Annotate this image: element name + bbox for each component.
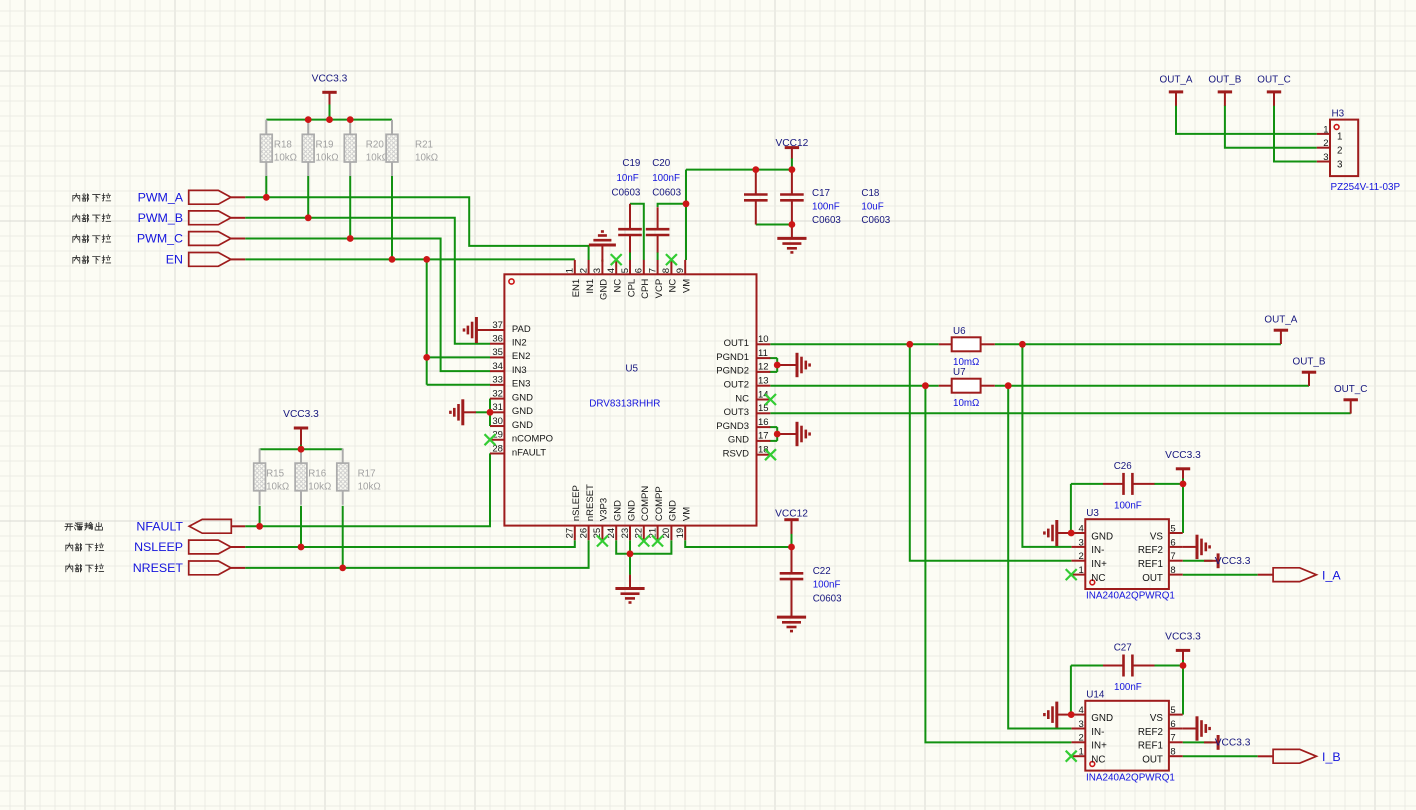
U5 pin 21 COMPP (bottom) [647, 486, 665, 540]
svg-text:C22: C22 [813, 566, 831, 577]
svg-text:10uF: 10uF [861, 201, 883, 212]
wire VCC12 stem top [791, 158, 793, 170]
no-connect X U5 pin29 nCOMPO [485, 434, 496, 445]
U5 pin 26 nRESET (bottom) [578, 484, 596, 540]
ground at U14 REF2 [1197, 716, 1210, 740]
U5 pin 19 VM (bottom) [675, 507, 693, 540]
wire C17 bottom to C18 [756, 224, 792, 226]
svg-text:nSLEEP: nSLEEP [571, 485, 582, 521]
wire VCC3.3 rail to R18-R21 [266, 119, 392, 121]
svg-text:CPH: CPH [640, 279, 651, 299]
svg-text:C0603: C0603 [861, 215, 890, 226]
svg-text:U6: U6 [953, 326, 966, 337]
junction PGND bracket2 [774, 431, 781, 438]
svg-text:GND: GND [512, 392, 533, 403]
wire VM vertical [685, 170, 687, 260]
ground stem U14 GND [1057, 714, 1071, 716]
U3 pin 6 REF2 [1138, 537, 1183, 556]
U3 pin 2 IN+ [1072, 551, 1108, 570]
junction OUT1/U6 left [906, 341, 913, 348]
svg-text:NC: NC [613, 279, 624, 293]
power flag VCC3.3 U3 stem [1182, 469, 1184, 479]
ground under C18 [777, 238, 806, 252]
svg-text:19: 19 [675, 528, 686, 539]
svg-text:NC: NC [735, 393, 749, 404]
svg-text:R15: R15 [266, 468, 285, 479]
ground under C22 [777, 617, 806, 631]
svg-text:2: 2 [1323, 138, 1328, 149]
svg-text:IN2: IN2 [512, 338, 527, 349]
junction VM/VCC12 lower [788, 544, 795, 551]
svg-text:2: 2 [1079, 733, 1084, 744]
power flag VCC12 bottom [784, 518, 798, 521]
junction OUT2/U7 left [922, 382, 929, 389]
svg-text:OUT_A: OUT_A [1160, 74, 1193, 85]
U5 pin 2 IN1 (top) [578, 260, 596, 294]
power flag VCC3.3 lower [294, 427, 308, 430]
U5 pin 15 OUT3 (right) [724, 403, 771, 418]
U5 pin 3 GND (top) [592, 260, 610, 300]
junction PWM_A/R18 [263, 194, 270, 201]
svg-text:100nF: 100nF [1114, 500, 1142, 511]
svg-text:IN+: IN+ [1091, 559, 1107, 570]
svg-text:4: 4 [606, 268, 617, 273]
svg-text:R21: R21 [415, 140, 433, 151]
svg-text:11: 11 [758, 348, 768, 359]
power flag VCC12 bottom stem [791, 520, 793, 534]
ground stem GND bracket [463, 411, 476, 413]
svg-text:3: 3 [1079, 537, 1084, 548]
capacitor C26 plates [1124, 473, 1133, 495]
wire EN to EN2 [427, 356, 490, 358]
U14 pin 3 IN- [1072, 719, 1105, 738]
svg-text:C0603: C0603 [812, 215, 841, 226]
svg-text:OUT_C: OUT_C [1334, 384, 1367, 395]
U5 pin 34 IN3 (left) [490, 361, 527, 376]
port I_B [1273, 749, 1316, 763]
U3 pin1 indicator [1090, 580, 1095, 585]
U5 pin 18 RSVD (right) [723, 445, 771, 460]
capacitor C27 leads [1103, 665, 1124, 667]
U3 pin 8 OUT [1142, 565, 1182, 584]
ground at PGND3/GND17 [797, 422, 810, 446]
wire C20 top to VM node [658, 204, 686, 207]
ground at U5 PAD [464, 317, 476, 343]
capacitor C19 top bend [629, 204, 631, 207]
wire C27 right [1154, 665, 1183, 667]
U14 pin 1 NC [1072, 747, 1106, 766]
resistor R15 10kΩ [259, 449, 261, 464]
port NFAULT [189, 519, 231, 533]
svg-text:IN+: IN+ [1091, 741, 1107, 752]
wire R15 to NFAULT [259, 506, 261, 527]
svg-text:R16: R16 [308, 468, 327, 479]
wire NSLEEP to nSLEEP pin [245, 540, 575, 547]
svg-text:U3: U3 [1086, 508, 1099, 519]
svg-text:10kΩ: 10kΩ [316, 153, 339, 164]
svg-text:IN1: IN1 [585, 279, 596, 294]
wire GND bracket vertical [489, 399, 491, 426]
svg-text:1: 1 [1323, 124, 1328, 135]
no-connect X U5 pin21 COMPP [652, 536, 663, 547]
net flag OUT_C [1334, 384, 1367, 414]
port PWM_B [189, 211, 231, 225]
no-connect X U5 pin18 RSVD [765, 449, 776, 460]
svg-text:C19: C19 [622, 158, 640, 169]
IC U5 DRV8313RHHR body [504, 274, 756, 525]
svg-text:1: 1 [1079, 747, 1084, 758]
svg-text:INA240A2QPWRQ1: INA240A2QPWRQ1 [1086, 591, 1175, 602]
svg-text:C0603: C0603 [813, 593, 842, 604]
svg-text:I_B: I_B [1322, 750, 1341, 764]
wire U6 to OUT_A flag [995, 343, 1281, 345]
annotation text 内部下拉 EN [73, 255, 111, 263]
svg-text:VCP: VCP [654, 279, 665, 299]
U5 pin 17 GND (right) [728, 431, 770, 446]
capacitor C22 leads [791, 547, 793, 573]
no-connect X U5 pin25 V3P3 [597, 536, 608, 547]
svg-text:32: 32 [492, 388, 503, 399]
wire OUT_A to H3 pin1 [1176, 105, 1317, 133]
svg-text:R20: R20 [366, 140, 385, 151]
net flag OUT_A [1264, 314, 1297, 344]
svg-text:VM: VM [682, 507, 693, 521]
svg-text:GND: GND [512, 406, 533, 417]
wire C26 right [1154, 483, 1183, 485]
no-connect X U5 pin14 NC [765, 394, 776, 405]
junction NRESET/R17 [339, 565, 346, 572]
ground stem PGND1/2 [777, 364, 797, 366]
wire U14 OUT to I_B [1183, 755, 1258, 757]
wire VCC3.3 to VS U14 [1182, 660, 1184, 715]
svg-text:C18: C18 [861, 188, 880, 199]
U14 pin 5 VS [1150, 705, 1183, 724]
svg-text:C0603: C0603 [652, 187, 681, 198]
resistor R20 10kΩ [349, 120, 351, 135]
svg-text:EN2: EN2 [512, 351, 530, 362]
svg-text:PZ254V-11-03P: PZ254V-11-03P [1331, 182, 1401, 193]
svg-text:26: 26 [578, 528, 589, 539]
annotation text 内部下拉 NSLEEP [66, 543, 104, 551]
svg-text:GND: GND [668, 500, 679, 521]
svg-text:GND: GND [613, 500, 624, 521]
junction NSLEEP/R16 [298, 544, 305, 551]
capacitor C22 plates [780, 573, 804, 579]
svg-text:U5: U5 [625, 364, 638, 375]
ground stem U3 REF2 [1183, 546, 1197, 548]
U3 pin 4 GND [1072, 523, 1114, 542]
wire R21 to EN [391, 176, 393, 260]
ground stem U14 REF2 [1183, 728, 1197, 730]
U5 pin 29 nCOMPO (left) [490, 430, 553, 445]
svg-text:IN3: IN3 [512, 365, 527, 376]
U5 pin 4 NC (top) [606, 260, 624, 293]
svg-text:VM: VM [682, 279, 693, 293]
svg-text:9: 9 [675, 268, 686, 273]
svg-text:5: 5 [620, 268, 631, 273]
wire GND17 stub ext [769, 440, 777, 442]
wire C26 to GND pin4 [1070, 484, 1072, 533]
svg-text:DRV8313RHHR: DRV8313RHHR [589, 399, 660, 410]
svg-text:7: 7 [1170, 733, 1175, 744]
svg-text:8: 8 [661, 268, 672, 273]
capacitor C18 leads [791, 170, 793, 195]
junction R20/VCC rail [347, 116, 354, 123]
svg-text:8: 8 [1170, 747, 1175, 758]
svg-text:OUT: OUT [1142, 755, 1163, 766]
svg-text:IN-: IN- [1091, 545, 1104, 556]
svg-text:PGND1: PGND1 [716, 352, 749, 363]
U5 pin 10 OUT1 (right) [724, 334, 771, 349]
ground stem PAD [476, 329, 490, 331]
svg-text:V3P3: V3P3 [599, 498, 610, 521]
svg-text:3: 3 [1337, 159, 1343, 170]
H3 pin 3 [1317, 152, 1343, 170]
svg-text:EN1: EN1 [571, 279, 582, 297]
U5 pin 24 GND (bottom) [606, 500, 624, 540]
junction U14 GND/C27 [1068, 711, 1075, 718]
svg-text:REF2: REF2 [1138, 727, 1163, 738]
U5 pin 13 OUT2 (right) [724, 376, 771, 391]
annotation text 内部下拉 PWM_C [73, 235, 111, 243]
svg-text:100nF: 100nF [652, 173, 680, 184]
wire VM to VCC12 [686, 169, 792, 171]
svg-text:C0603: C0603 [612, 187, 641, 198]
svg-text:IN-: IN- [1091, 727, 1104, 738]
junction U3 GND/C26 [1068, 530, 1075, 537]
svg-text:NC: NC [1091, 573, 1105, 584]
wire PGND bracket1 [776, 358, 778, 372]
wire GND pin3 stub join [601, 259, 603, 262]
U5 pin 36 IN2 (left) [490, 334, 527, 349]
resistor R18 10kΩ [265, 120, 267, 135]
U5 pin 7 VCP (top) [647, 260, 665, 298]
power flag VCC3.3 at U14 REF1 [1204, 741, 1218, 743]
svg-text:GND: GND [1091, 531, 1113, 542]
junction EN branch [423, 256, 430, 263]
svg-text:8: 8 [1170, 565, 1175, 576]
wire OUT3 to OUT_C flag [770, 412, 1350, 414]
svg-text:10kΩ: 10kΩ [274, 153, 297, 164]
svg-text:33: 33 [492, 375, 503, 386]
svg-text:2: 2 [1079, 551, 1084, 562]
svg-text:PGND3: PGND3 [716, 421, 749, 432]
svg-text:27: 27 [565, 528, 576, 539]
svg-text:GND: GND [626, 500, 637, 521]
capacitor C17 leads [755, 170, 757, 195]
power flag VCC3.3 lower stem [300, 428, 302, 445]
wire EN to EN3 [427, 384, 490, 386]
ground under U5 GND pins [615, 589, 644, 603]
no-connect X U3 pin1 NC [1066, 569, 1077, 580]
U5 pin 1 EN1 (top) [565, 260, 583, 297]
svg-text:INA240A2QPWRQ1: INA240A2QPWRQ1 [1086, 772, 1175, 783]
port I_A [1273, 568, 1316, 582]
junction PWM_B/R19 [305, 214, 312, 221]
svg-text:6: 6 [634, 268, 645, 273]
wire R20 to PWM_C [349, 176, 351, 239]
svg-text:13: 13 [758, 376, 769, 387]
svg-text:10kΩ: 10kΩ [266, 482, 289, 493]
capacitor C17 plates [744, 195, 768, 201]
svg-text:GND: GND [1091, 713, 1113, 724]
svg-text:VCC3.3: VCC3.3 [312, 73, 348, 84]
wire C27 to GND pin4 [1070, 666, 1072, 715]
ground at U3 GND [1044, 520, 1056, 546]
svg-text:C20: C20 [652, 158, 671, 169]
svg-text:REF2: REF2 [1138, 545, 1163, 556]
svg-text:OUT2: OUT2 [724, 380, 749, 391]
wire VCC12 stem lower [791, 534, 793, 548]
svg-text:U7: U7 [953, 367, 966, 378]
svg-text:100nF: 100nF [812, 201, 840, 212]
U5 pin 23 GND (bottom) [620, 500, 638, 540]
U3 pin 3 IN- [1072, 537, 1105, 556]
U5 pin 28 nFAULT (left) [490, 443, 546, 458]
svg-text:NC: NC [1091, 755, 1105, 766]
svg-text:3: 3 [592, 268, 603, 273]
shunt resistor U7 10mOhm [939, 367, 995, 409]
wire C19 top to CPH [630, 204, 644, 260]
U5 pin 12 PGND2 (right) [716, 362, 770, 377]
svg-text:16: 16 [758, 417, 769, 428]
svg-text:OUT_A: OUT_A [1264, 314, 1297, 325]
junction C26/VCC3.3/VS [1180, 481, 1187, 488]
U5 pin 33 EN3 (left) [490, 375, 530, 390]
resistor R19 10kΩ [307, 120, 309, 135]
svg-text:COMPP: COMPP [654, 486, 665, 521]
svg-text:1: 1 [1337, 132, 1342, 143]
junction VCC rail lower [298, 446, 305, 453]
svg-text:C27: C27 [1114, 643, 1132, 654]
H3 pin 1 [1317, 124, 1343, 142]
svg-text:10kΩ: 10kΩ [415, 153, 438, 164]
wire PWM_B to IN2 [245, 218, 490, 344]
power flag VCC3.3 at U3 REF1 [1204, 560, 1218, 562]
svg-text:100nF: 100nF [813, 579, 841, 590]
ground stem U3 GND [1057, 532, 1071, 534]
svg-text:EN: EN [166, 253, 183, 267]
power flag VCC3.3 U14 stem [1182, 650, 1184, 660]
svg-text:VCC12: VCC12 [775, 138, 808, 149]
wire OUT1 to U6 [770, 343, 938, 345]
svg-text:10: 10 [758, 334, 769, 345]
svg-text:6: 6 [1170, 719, 1175, 730]
svg-text:R19: R19 [316, 140, 334, 151]
svg-text:3: 3 [1323, 152, 1328, 163]
svg-text:5: 5 [1170, 705, 1175, 716]
wire REF1 U3 to VCC3.3 [1183, 560, 1213, 562]
wire R18 to PWM_A [265, 176, 267, 198]
svg-text:NC: NC [668, 279, 679, 293]
svg-text:VS: VS [1150, 713, 1164, 724]
junction C17/C18 bottom [789, 221, 796, 228]
wire VCC3.3 to VS U3 [1182, 478, 1184, 533]
ground at U3 REF2 [1197, 535, 1210, 559]
wire VM pin19 to VCC12 [685, 540, 791, 547]
wire PGND1 stub ext [769, 357, 777, 359]
wire VCC3.3 stem [329, 104, 331, 120]
resistor R17 10kΩ [342, 449, 344, 464]
capacitor C19 leads [629, 207, 631, 229]
wire OUT2 shunt to U14 IN- [1008, 386, 1071, 729]
no-connect X U5 pin8 NC [666, 254, 677, 265]
ground at U5 GND pins 30-32 [450, 399, 462, 425]
net flag OUT_B top [1208, 74, 1241, 105]
wire NRESET to nRESET pin [245, 540, 588, 568]
svg-text:H3: H3 [1332, 108, 1345, 119]
U5 pin 25 V3P3 (bottom) [592, 498, 610, 540]
annotation text 开漏输出 NFAULT [65, 522, 103, 530]
svg-text:OUT3: OUT3 [724, 407, 749, 418]
U5 pin 8 NC (top) [661, 260, 679, 293]
U5 pin 11 PGND1 (right) [716, 348, 770, 363]
svg-text:GND: GND [599, 279, 610, 300]
wire R19 to PWM_B [307, 176, 309, 218]
junction C17 top [752, 166, 759, 173]
shunt resistor U6 10mOhm [939, 326, 995, 368]
port PWM_C [189, 232, 231, 246]
wire C26 left [1071, 483, 1103, 485]
svg-text:2: 2 [1337, 146, 1342, 157]
power flag VCC3.3 top [322, 91, 336, 94]
svg-text:2: 2 [578, 268, 589, 273]
H3 pin1 indicator [1334, 125, 1339, 130]
junction GND bracket left [487, 409, 494, 416]
U5 pin 9 VM (top) [675, 260, 693, 293]
no-connect X U5 pin4 NC [611, 254, 622, 265]
connector H3 body [1330, 120, 1358, 177]
svg-text:C17: C17 [812, 188, 830, 199]
U3 pin 5 VS [1150, 523, 1183, 542]
svg-text:12: 12 [758, 362, 769, 373]
svg-text:6: 6 [1170, 537, 1175, 548]
wire C19 bottom to CPL [629, 252, 631, 260]
svg-text:1: 1 [1079, 565, 1084, 576]
svg-text:GND: GND [728, 435, 749, 446]
svg-text:NSLEEP: NSLEEP [134, 540, 183, 554]
port NRESET [189, 561, 231, 575]
power flag VCC12 top [785, 146, 799, 149]
svg-text:nFAULT: nFAULT [512, 447, 546, 458]
svg-text:7: 7 [1170, 551, 1175, 562]
net flag OUT_B [1293, 356, 1326, 386]
port NSLEEP [189, 540, 231, 554]
net flag OUT_C top [1257, 74, 1290, 105]
power flag VCC3.3 top stem [329, 92, 331, 104]
svg-text:100nF: 100nF [1114, 682, 1142, 693]
junction C27/VCC3.3/VS U14 [1180, 662, 1187, 669]
U5 pin 22 COMPN (bottom) [634, 486, 652, 541]
svg-text:15: 15 [758, 403, 769, 414]
wire REF1 U14 to VCC3.3 [1183, 741, 1213, 743]
svg-text:10kΩ: 10kΩ [308, 482, 331, 493]
U5 pin 35 EN2 (left) [490, 347, 530, 362]
svg-text:nCOMPO: nCOMPO [512, 434, 553, 445]
svg-text:NRESET: NRESET [133, 561, 184, 575]
wire U7 to OUT_B flag [995, 385, 1309, 387]
junction NFAULT/R15 [256, 523, 263, 530]
ground stem PGND3/GND [777, 433, 797, 435]
svg-text:23: 23 [620, 528, 631, 539]
svg-text:VCC3.3: VCC3.3 [1215, 556, 1251, 567]
capacitor C27 plates [1124, 655, 1133, 677]
wire OUT2 to U7 [770, 385, 938, 387]
junction U6 right [1019, 341, 1026, 348]
svg-text:35: 35 [492, 347, 503, 358]
U5 pin1 indicator [509, 279, 514, 284]
svg-text:VCC3.3: VCC3.3 [1165, 631, 1201, 642]
